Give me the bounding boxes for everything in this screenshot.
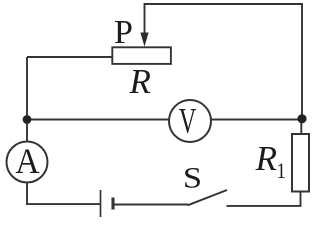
svg-text:R: R [129,62,151,101]
svg-text:A: A [15,141,39,181]
svg-text:S: S [183,160,202,193]
svg-text:V: V [179,101,196,141]
svg-text:R: R [255,139,277,178]
svg-text:P: P [114,14,133,51]
svg-text:1: 1 [277,160,286,184]
